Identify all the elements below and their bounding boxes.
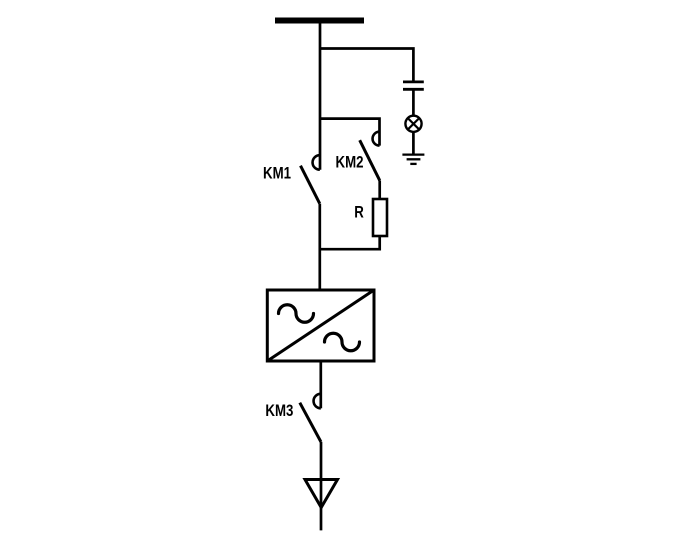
wire: lamp to ground — [412, 131, 415, 154]
capacitor — [403, 82, 424, 89]
disconnector KM3 (blade) — [300, 403, 321, 442]
disconnector KM1 (hook contact) — [313, 155, 320, 170]
ground — [402, 155, 424, 164]
lamp (indicator light) — [405, 116, 421, 132]
converter U1 (diagonal) — [267, 290, 374, 361]
converter U1 (AC sine, input side) — [279, 305, 314, 323]
wire: busbar down to KM1 fixed contact — [319, 22, 322, 170]
wire: branch to KM2 — [320, 119, 380, 146]
disconnector KM2 (blade) — [360, 140, 380, 180]
disconnector KM1 (blade) — [301, 166, 320, 204]
busbar — [275, 18, 364, 24]
wire: KM1 to converter — [318, 204, 321, 290]
svg-text:KM3: KM3 — [265, 402, 293, 421]
disconnector KM3 (hook contact) — [314, 394, 321, 409]
wire: KM3 through arrow to output — [320, 442, 323, 530]
wire: converter to KM3 — [319, 361, 322, 408]
wire: capacitor to lamp — [412, 91, 415, 117]
disconnector KM2 (hook contact) — [373, 132, 380, 146]
wire: KM2 blade to resistor — [378, 180, 381, 199]
svg-text:KM2: KM2 — [336, 153, 364, 172]
arrow head (output feeder) — [305, 480, 338, 508]
converter U1 (AC sine, output side) — [325, 333, 360, 351]
converter U1 (box) — [267, 290, 374, 361]
wire: branch to capacitor/lamp leg — [320, 49, 413, 81]
resistor R — [373, 199, 387, 236]
svg-text:KM1: KM1 — [263, 164, 291, 183]
wire: resistor to junction — [320, 236, 380, 249]
svg-text:R: R — [354, 203, 364, 222]
